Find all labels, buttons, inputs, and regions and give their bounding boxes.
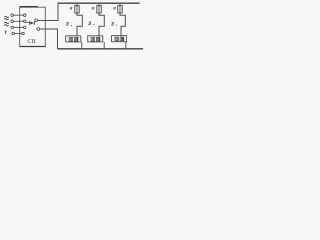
terminal circle row2 inner	[23, 20, 26, 23]
wire fuse2 to contact	[99, 13, 104, 36]
wire fuse1 to contact	[77, 13, 82, 36]
terminal circle row4 outer	[12, 32, 15, 35]
terminal circle row2 outer	[11, 20, 14, 23]
input wire row 3	[13, 26, 23, 28]
fuse F3	[118, 6, 122, 13]
svg-text:з: з	[87, 20, 91, 27]
wire plus out	[38, 3, 58, 20]
coil 2a	[91, 37, 95, 41]
coil 3b	[120, 37, 124, 41]
input wire row 2	[13, 20, 23, 22]
terminal circle row3 inner	[23, 26, 26, 29]
bottom bus	[57, 48, 143, 50]
fuse F3 stem	[119, 3, 121, 5]
terminal circle row3 outer	[11, 26, 14, 29]
coil 1b	[74, 37, 78, 41]
input wire row 4	[14, 33, 21, 35]
clock unit box 1	[66, 36, 81, 42]
input wire row 1	[13, 14, 23, 16]
output terminal minus	[37, 28, 40, 31]
return wire 2	[103, 42, 105, 49]
box bottom edge dark part	[20, 46, 46, 48]
return wire 3	[125, 42, 127, 49]
fuse F2 stem	[98, 3, 100, 5]
svg-text:я: я	[112, 6, 116, 11]
return wire 1	[81, 42, 83, 49]
diode right bar	[33, 21, 35, 25]
terminal circle row1 outer	[11, 14, 14, 17]
output terminal plus	[35, 19, 38, 22]
diode VD inside box: wire	[26, 22, 29, 24]
terminal circle row1 inner	[23, 14, 26, 17]
clock unit box 2	[88, 36, 103, 42]
diode left bar	[29, 21, 31, 25]
diode triangle	[30, 21, 34, 24]
wire fuse3 to contact	[120, 13, 125, 36]
svg-text:з: з	[110, 21, 114, 28]
svg-text:СВ: СВ	[27, 38, 35, 45]
rectifier box CB	[20, 7, 46, 46]
box top edge dark part	[20, 6, 38, 8]
input phase mark	[5, 31, 6, 34]
clock unit box 3	[112, 36, 127, 42]
coil 3a	[115, 37, 119, 41]
svg-text:з: з	[65, 21, 69, 28]
fuse F1	[75, 6, 79, 13]
fuse F2	[97, 6, 101, 13]
coil 1a	[69, 37, 73, 41]
AC source squiggle ~1	[4, 16, 8, 17]
wire minus out	[40, 29, 58, 49]
top bus	[57, 2, 139, 4]
coil 2b	[96, 37, 100, 41]
fuse F1 stem	[76, 3, 78, 5]
AC source squiggle ~2	[4, 22, 8, 23]
terminal circle row4 inner	[22, 32, 25, 35]
svg-text:я: я	[91, 6, 95, 11]
svg-text:я: я	[69, 7, 73, 12]
